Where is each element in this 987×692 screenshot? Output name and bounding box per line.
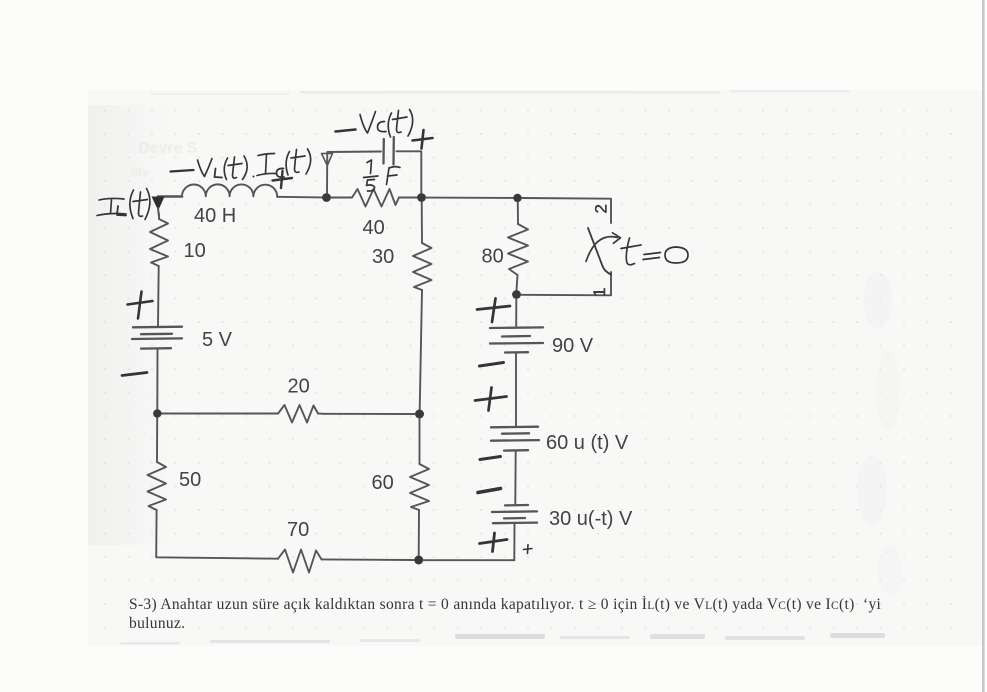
resistor R 70 (horizontal zigzag) bbox=[278, 550, 322, 573]
handwritten plus above battery 60u(t) bbox=[475, 388, 507, 411]
wire: bottom rail right segment (node G to battery branch) bbox=[423, 559, 514, 561]
node C junction dot bbox=[513, 194, 521, 202]
svg-text:30: 30 bbox=[372, 246, 394, 268]
node G junction dot bbox=[414, 556, 423, 565]
handwritten plus above battery 5V bbox=[128, 292, 153, 319]
wire: bottom rail left segment with corner up to resistor 50 bbox=[156, 510, 278, 559]
node F junction dot bbox=[415, 410, 424, 419]
battery B1 90 V plates bbox=[490, 327, 543, 352]
svg-text:2: 2 bbox=[592, 204, 611, 213]
node D junction dot bbox=[512, 290, 521, 299]
resistor R 20 (horizontal zigzag) bbox=[278, 405, 324, 423]
handwritten minus above battery 30u(-t) bbox=[478, 489, 501, 493]
svg-text:dtv: dtv bbox=[130, 164, 150, 179]
handwritten label - VL(t). bbox=[171, 156, 255, 180]
wire: inductor to node A bbox=[277, 196, 322, 199]
node A junction dot bbox=[322, 193, 331, 202]
problem statement text bbox=[129, 595, 919, 633]
handwritten annotations bbox=[97, 110, 688, 554]
Ic current arrowhead (hollow, pointing down) bbox=[322, 153, 333, 165]
handwritten label t=0 (switch closing time) bbox=[621, 238, 688, 265]
svg-text:40 H: 40 H bbox=[194, 205, 236, 227]
switch S1 arc arrow bbox=[586, 233, 621, 262]
svg-text:20: 20 bbox=[288, 376, 310, 398]
svg-text:80: 80 bbox=[482, 246, 504, 268]
svg-text:40: 40 bbox=[363, 217, 385, 239]
capacitor branch: left vertical wire from node A up bbox=[327, 152, 381, 194]
wire: node E to resistor 20 bbox=[161, 413, 278, 415]
svg-text:30 u(-t) V: 30 u(-t) V bbox=[549, 508, 633, 530]
node E junction dot bbox=[153, 409, 161, 417]
resistor R 30 (vertical zigzag) bbox=[413, 243, 432, 290]
node B junction dot bbox=[417, 193, 426, 202]
capacitor branch: right wire down to node B bbox=[397, 151, 422, 193]
wire: battery 5V to node E bbox=[156, 349, 158, 409]
bottom edge smudge dashes bbox=[120, 633, 885, 645]
svg-text:90 V: 90 V bbox=[552, 335, 594, 357]
handwritten label - Vc(t) + bbox=[336, 110, 433, 149]
wire: node B down to resistor 30 bbox=[421, 202, 423, 243]
faint bleed-through blobs right margin bbox=[857, 272, 902, 595]
svg-text:5 V: 5 V bbox=[202, 329, 233, 351]
wire: node C down to resistor 80 bbox=[517, 202, 519, 224]
svg-text:60: 60 bbox=[372, 472, 394, 494]
resistor R 60 (vertical zigzag) bbox=[410, 464, 429, 510]
wire: resistor 40 to node B bbox=[399, 197, 417, 199]
handwritten label IL(t) bbox=[97, 189, 150, 220]
wire: node B to node C bbox=[426, 197, 513, 199]
resistor R 80 (vertical zigzag) bbox=[508, 224, 528, 275]
small printed plus mark at bottom of battery branch bbox=[524, 545, 533, 554]
resistor R 10 (vertical zigzag) bbox=[150, 214, 168, 266]
inductor L1 40 H bbox=[182, 184, 277, 196]
wire: node D down to battery 90V bbox=[515, 299, 517, 326]
handwritten minus below battery 5V bbox=[122, 373, 147, 376]
switch S1 blade bbox=[588, 228, 611, 275]
wire: node E down to resistor 50 bbox=[156, 418, 158, 462]
wire: battery 60u(t) to battery 30u(-t) bbox=[514, 451, 516, 504]
battery B4 5 V plates bbox=[132, 327, 182, 349]
graph paper dot grid bbox=[95, 96, 965, 644]
wire: bottom rail from resistor 70 to node G bbox=[322, 558, 415, 561]
battery B2 60 u(t) V plates bbox=[491, 427, 539, 451]
ghost text Devre (bleed-through) bbox=[130, 140, 198, 179]
handwritten minus below battery 60u(t) bbox=[480, 457, 501, 460]
handwritten plus above battery 90V bbox=[477, 299, 510, 323]
svg-text:10: 10 bbox=[184, 240, 206, 262]
svg-text:60 u (t) V: 60 u (t) V bbox=[546, 432, 629, 454]
scan page right edge line bbox=[982, 0, 985, 692]
graph paper sheet wash bbox=[88, 90, 985, 646]
wire: resistor 80 to node D bbox=[517, 275, 518, 290]
resistor R 40 (horizontal zigzag) bbox=[352, 189, 399, 207]
wire: resistor 30 to node F bbox=[420, 290, 422, 410]
capacitor C 1/5 F plates bbox=[384, 137, 394, 165]
handwritten label Ic(t) bbox=[257, 149, 311, 188]
top edge smudge line bbox=[150, 90, 850, 95]
wire: node D to switch contact 1 bbox=[521, 272, 611, 295]
wire: resistor 60 to node G bbox=[418, 510, 420, 556]
IL current arrow (filled, pointing down) on left wire bbox=[152, 197, 165, 211]
svg-text:70: 70 bbox=[287, 519, 309, 541]
svg-text:1: 1 bbox=[590, 288, 609, 297]
battery B3 30 u(-t) V plates bbox=[492, 505, 537, 523]
handwritten minus below battery 90V bbox=[480, 363, 504, 367]
wire: resistor 20 to node F bbox=[324, 413, 415, 415]
wire: top-left stub to inductor bbox=[158, 195, 182, 198]
svg-text:Devre S: Devre S bbox=[138, 140, 198, 157]
wire: battery 30u(-t) down to bottom rail bbox=[513, 524, 515, 561]
handwritten plus below battery 30u(-t) bbox=[480, 533, 508, 552]
wire: node C to switch contact 2 bbox=[522, 198, 611, 223]
svg-text:50: 50 bbox=[179, 469, 201, 491]
wire: node F down to resistor 60 bbox=[419, 419, 421, 465]
handwritten label 1/5 F (capacitor value) bbox=[364, 160, 401, 191]
printed value labels bbox=[179, 204, 633, 541]
resistor R 50 (vertical zigzag) bbox=[148, 462, 167, 510]
wire: battery 90V to battery 60u(t) bbox=[515, 353, 517, 427]
wire: resistor 10 to battery 5V bbox=[157, 266, 160, 327]
wire: node A to resistor 40 bbox=[331, 197, 352, 199]
